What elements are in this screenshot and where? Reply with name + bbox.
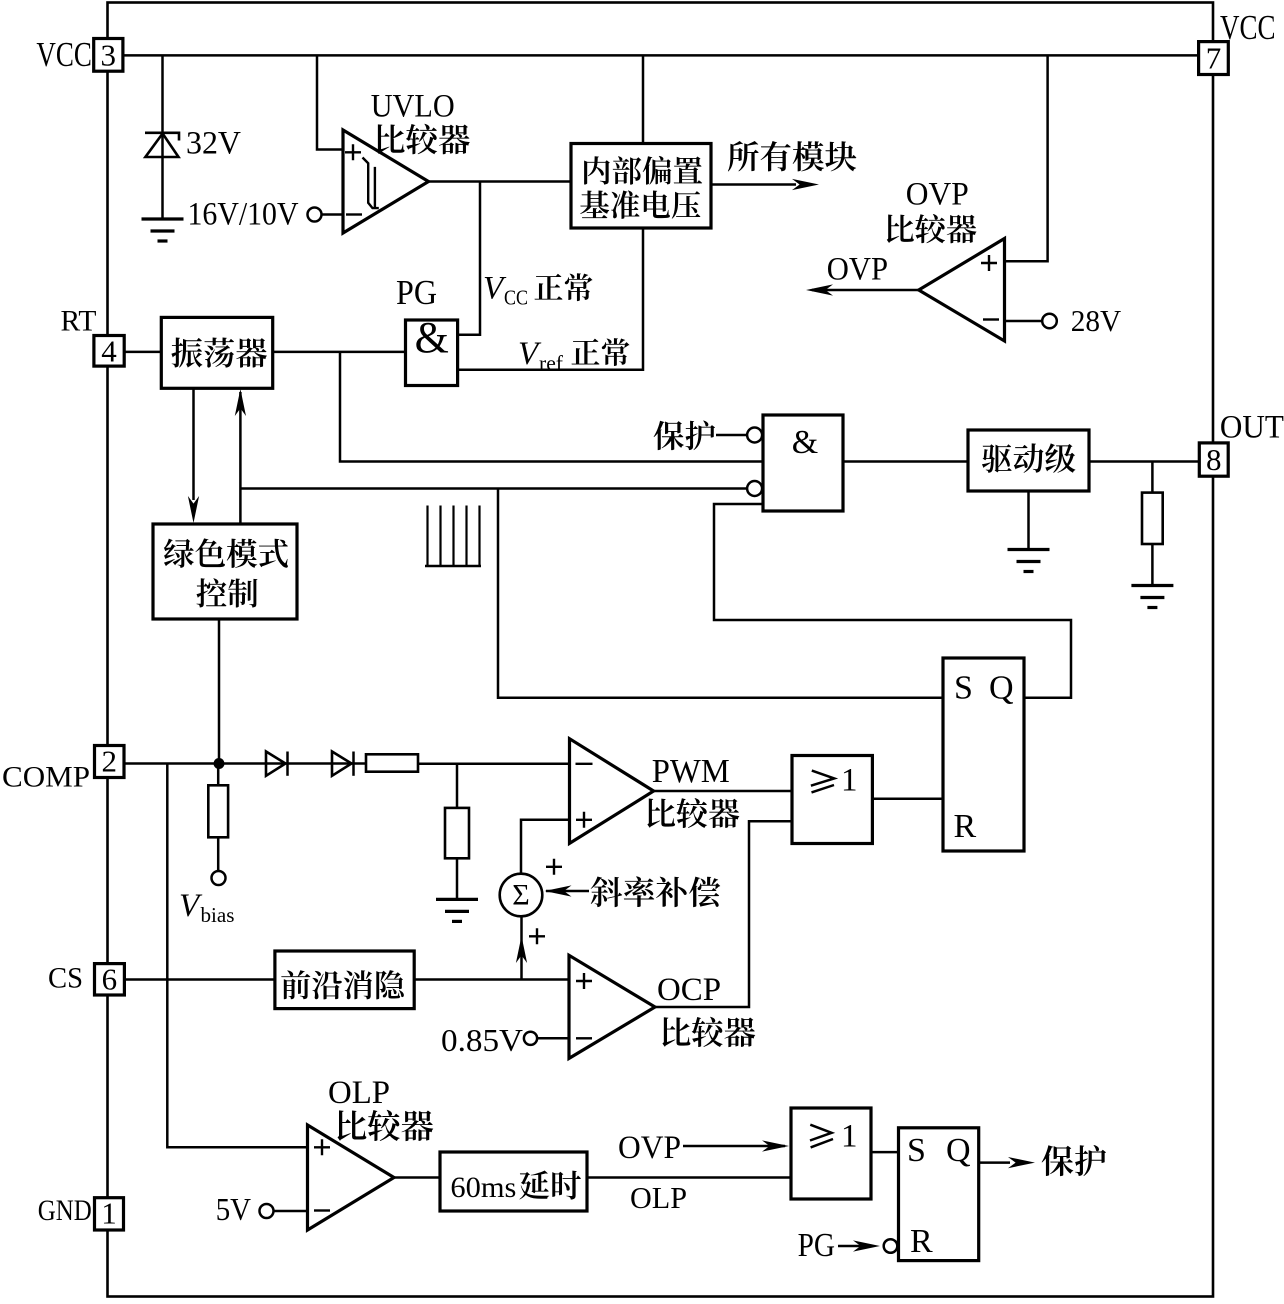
pin 3 VCC <box>94 39 123 72</box>
label UVLO comparator (CJK) <box>376 124 469 155</box>
svg-text:Q: Q <box>989 670 1014 707</box>
label all modules (CJK) <box>728 141 856 172</box>
wire branch to PWM latch S input <box>498 489 943 698</box>
comparator OCP <box>569 955 655 1058</box>
inverter bubble protect input <box>747 428 762 443</box>
arrow slope compensation into summer <box>546 890 589 893</box>
block green mode control <box>153 524 297 619</box>
block oscillator <box>161 317 272 388</box>
wire pin 4 RT to oscillator <box>124 351 161 354</box>
inverter bubble at latch R input <box>884 1239 898 1253</box>
svg-text:PG: PG <box>798 1227 835 1264</box>
svg-text:4: 4 <box>101 334 117 369</box>
svg-text:bias: bias <box>201 903 235 927</box>
resistor to ground (PWM input) <box>445 808 469 858</box>
wire oscillator to green mode control (down arrow) <box>192 388 195 500</box>
svg-text:3: 3 <box>101 38 117 73</box>
wire pin 6 CS to leading edge blanking <box>124 978 275 981</box>
wire driver to pin 8 OUT <box>1089 460 1199 463</box>
wire VCC rail to internal bias block <box>642 55 645 143</box>
wire resistor to PWM - input <box>418 763 570 766</box>
wire bias block to PG AND gate (Vref normal) <box>458 228 643 370</box>
svg-text:PWM: PWM <box>652 753 730 790</box>
wire VCC rail from pin 3 to pin 7 <box>123 54 1199 57</box>
svg-text:7: 7 <box>1206 41 1222 76</box>
svg-text:CS: CS <box>48 962 83 995</box>
wire blanking to OCP + input <box>414 978 569 981</box>
svg-text:OVP: OVP <box>906 177 969 213</box>
block internal bias reference voltage <box>571 144 711 229</box>
label slope compensation (CJK) <box>591 876 721 907</box>
svg-text:1: 1 <box>841 1119 858 1155</box>
svg-text:28V: 28V <box>1071 303 1122 338</box>
wire green mode control to oscillator (up arrow) <box>239 392 242 524</box>
diode D2 on COMP line <box>332 752 352 776</box>
label protect input (CJK) <box>654 421 715 451</box>
svg-text:R: R <box>910 1223 933 1260</box>
svg-text:32V: 32V <box>186 126 241 162</box>
wire node to bias resistor <box>217 764 220 786</box>
svg-text:COMP: COMP <box>2 761 90 794</box>
wire 16V/10V to UVLO - input <box>322 213 345 216</box>
svg-text:&: & <box>415 313 449 362</box>
OR gate 1 <box>792 756 872 844</box>
wire latch Q feedback to AND gate <box>714 504 1071 698</box>
svg-text:Q: Q <box>946 1132 971 1169</box>
pin 4 RT <box>94 336 124 367</box>
terminal Vbias <box>212 871 226 885</box>
series resistor on COMP line <box>366 754 418 771</box>
wire VCC to zener and ground <box>161 55 164 219</box>
flip-flop PWM latch S Q R <box>943 658 1024 851</box>
AND gate output stage <box>763 415 843 511</box>
pin 1 GND <box>95 1198 124 1230</box>
svg-text:S: S <box>954 670 973 707</box>
svg-text:Σ: Σ <box>512 879 529 912</box>
svg-text:CC: CC <box>504 286 528 310</box>
inverter bubble green mode input <box>747 481 762 496</box>
hysteresis symbol inside UVLO <box>363 158 379 209</box>
svg-text:2: 2 <box>101 744 117 779</box>
svg-text:1: 1 <box>841 763 858 799</box>
svg-text:R: R <box>954 808 977 845</box>
AND gate PG <box>406 320 458 386</box>
svg-text:RT: RT <box>61 305 97 338</box>
wire OLP delay to OR2 <box>587 1176 791 1179</box>
zener diode 32V <box>145 134 178 158</box>
svg-text:&: & <box>792 424 818 461</box>
wire output to pull resistor <box>1151 462 1154 493</box>
svg-text:8: 8 <box>1206 442 1222 477</box>
block 60ms delay <box>440 1152 587 1211</box>
svg-text:0.85V: 0.85V <box>441 1022 523 1058</box>
pin 7 VCC <box>1199 42 1229 75</box>
comparator OVP <box>919 239 1005 342</box>
summer circle sigma <box>500 874 543 917</box>
wire green mode control to COMP node <box>218 619 221 764</box>
pin 8 OUT <box>1199 443 1228 476</box>
wire VCC rail to UVLO + input <box>317 55 343 149</box>
wire VCC rail to OVP + input <box>1005 55 1048 261</box>
wire AND gate to driver stage <box>843 460 968 463</box>
svg-text:UVLO: UVLO <box>371 88 455 124</box>
wire COMP branch down to OLP comparator <box>167 764 307 1148</box>
ground below divider resistor <box>436 898 478 901</box>
OR gate 2 <box>791 1108 871 1199</box>
svg-text:5V: 5V <box>216 1191 251 1227</box>
svg-text:OUT: OUT <box>1220 410 1284 446</box>
wire UVLO output to internal bias block <box>429 180 572 183</box>
wire PWM output to OR1 <box>654 790 792 793</box>
clock pulses symbol <box>425 565 481 568</box>
ground below OUT resistor <box>1131 584 1173 587</box>
plus sign at summer top input <box>546 859 562 875</box>
wire oscillator to PG AND gate <box>273 351 406 354</box>
wire OCP output to OR1 <box>655 821 792 1007</box>
svg-text:VCC: VCC <box>36 35 92 74</box>
flip-flop protect latch S Q R <box>899 1128 979 1261</box>
svg-text:60ms: 60ms <box>450 1171 516 1204</box>
wire CS signal up into summer (arrow up) <box>520 917 523 980</box>
pin 6 CS <box>95 964 125 995</box>
ground below zener <box>142 217 184 220</box>
comparator UVLO <box>343 130 429 233</box>
svg-text:OCP: OCP <box>657 972 721 1008</box>
pin 2 COMP <box>95 746 125 778</box>
resistor to Vbias <box>208 785 228 837</box>
label protect output (CJK) <box>1042 1145 1106 1176</box>
wire green mode line to output AND inverted input <box>240 487 747 490</box>
svg-text:OVP: OVP <box>827 252 888 288</box>
block driver stage <box>968 430 1089 491</box>
svg-text:1: 1 <box>101 1196 117 1231</box>
svg-text:VCC: VCC <box>1220 8 1276 47</box>
terminal 28V <box>1042 314 1057 329</box>
svg-text:PG: PG <box>396 273 437 312</box>
wire driver to ground <box>1027 491 1030 550</box>
wire protect to AND inverted input <box>716 434 747 437</box>
svg-text:6: 6 <box>102 962 118 997</box>
plus sign at summer bottom input <box>529 928 545 944</box>
svg-text:OLP: OLP <box>630 1180 687 1215</box>
svg-text:S: S <box>907 1132 926 1169</box>
arrow latch Q to protect output <box>979 1161 1010 1164</box>
wire oscillator line branch down to output AND clock input <box>340 352 763 462</box>
svg-text:ref: ref <box>539 351 563 375</box>
resistor on OUT <box>1142 493 1163 544</box>
wire UVLO output branch to PG AND gate (Vcc normal) <box>458 182 480 335</box>
wire OVP output arrow <box>812 289 919 292</box>
wire OLP output to delay block <box>394 1176 440 1179</box>
wire pin 2 COMP line <box>124 762 367 765</box>
arrow to all modules <box>711 183 796 186</box>
comparator OLP <box>308 1125 395 1230</box>
svg-text:OVP: OVP <box>618 1130 681 1166</box>
svg-text:16V/10V: 16V/10V <box>188 197 299 233</box>
ground below driver <box>1008 548 1050 551</box>
block leading edge blanking <box>275 951 414 1009</box>
diode D1 on COMP line <box>266 752 286 776</box>
wire OR2 to protect latch S <box>871 1151 899 1154</box>
node junction on COMP line <box>214 758 225 769</box>
comparator PWM <box>570 739 654 844</box>
svg-text:GND: GND <box>38 1194 92 1227</box>
svg-text:OLP: OLP <box>328 1075 390 1111</box>
wire OR1 to latch R input <box>872 798 943 801</box>
wire summer to PWM + input <box>521 820 570 874</box>
wire branch to divider resistor <box>456 764 459 808</box>
